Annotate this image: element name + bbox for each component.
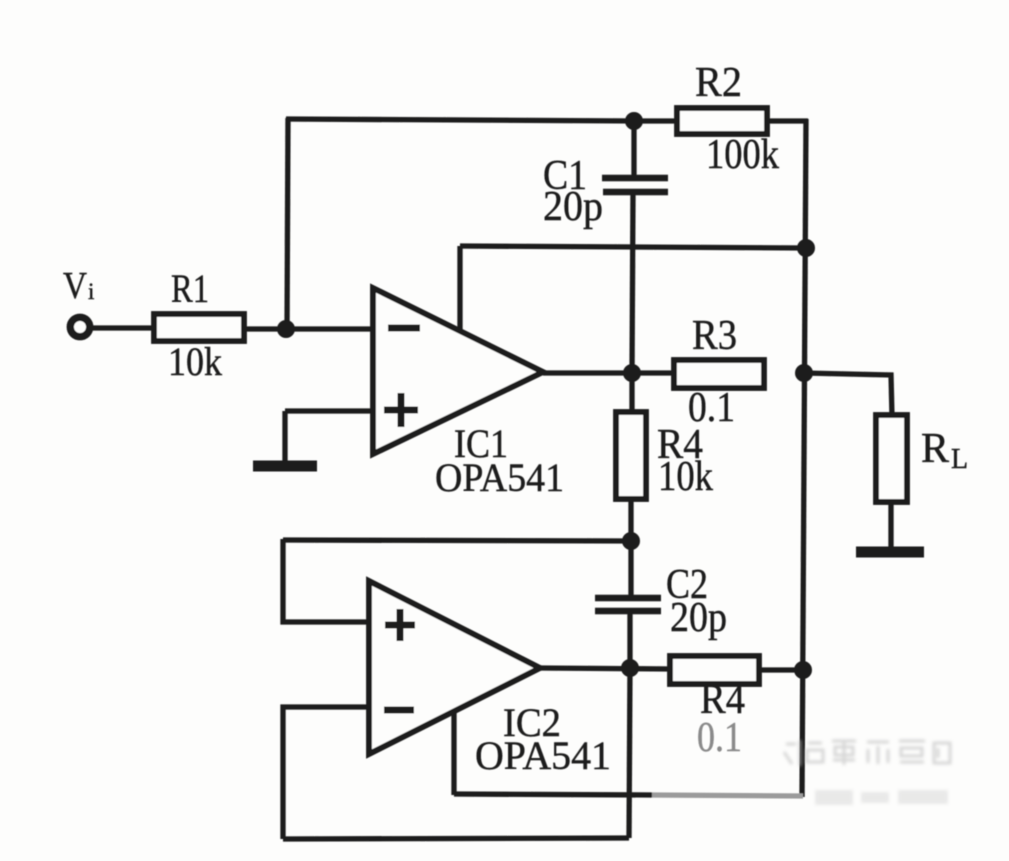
svg-text:R3: R3 bbox=[692, 313, 737, 359]
wire feedback vertical into IC1 bbox=[457, 246, 462, 331]
wire R4 0.1 right to rail bbox=[759, 667, 803, 672]
node C feedback/rail junction bbox=[797, 239, 815, 257]
op-amp U2 IC2 bbox=[369, 581, 540, 754]
svg-text:OPA541: OPA541 bbox=[435, 455, 564, 500]
svg-text:100k: 100k bbox=[706, 132, 779, 178]
resistor R3 bbox=[674, 360, 764, 388]
resistor RL bbox=[876, 415, 907, 502]
node D IC1 output junction bbox=[623, 364, 641, 382]
watermark bbox=[784, 740, 950, 766]
wire vertical from node A up bbox=[287, 118, 288, 329]
svg-text:R2: R2 bbox=[695, 60, 742, 106]
wire IC1 output bbox=[543, 370, 676, 375]
svg-text:OPA541: OPA541 bbox=[475, 733, 611, 778]
wire R2 right to rail bbox=[766, 118, 808, 123]
wire feedback horizontal to rail bbox=[460, 246, 805, 248]
svg-text:10k: 10k bbox=[658, 454, 713, 500]
wire input Vi to R1 bbox=[92, 325, 156, 330]
wire R3 right to RL bbox=[804, 373, 892, 416]
node H rail junction bbox=[794, 661, 812, 679]
wire IC2 feedback horizontal to rail bbox=[454, 794, 652, 795]
node B junction R2/C1 bbox=[625, 112, 643, 130]
svg-text:0.1: 0.1 bbox=[697, 715, 742, 761]
node G IC2 output junction bbox=[621, 659, 639, 677]
capacitor C1 bbox=[631, 121, 636, 176]
svg-text:V: V bbox=[63, 265, 87, 307]
svg-text:10k: 10k bbox=[168, 339, 222, 384]
input terminal Vi bbox=[70, 317, 89, 336]
svg-text:L: L bbox=[951, 444, 968, 475]
wire top horizontal to node B bbox=[286, 119, 636, 121]
wire node F to left bracket bbox=[283, 540, 631, 541]
resistor R2 bbox=[677, 108, 767, 134]
node F R4 bottom junction bbox=[622, 532, 640, 550]
wire lower-left bracket to IC2 inverting input bbox=[283, 707, 369, 839]
svg-text:R1: R1 bbox=[171, 266, 209, 311]
wire left bracket to IC2 non-inverting input bbox=[283, 539, 369, 622]
ground IC1 bbox=[282, 411, 287, 462]
op-amp U1 IC1 bbox=[373, 288, 543, 454]
wire IC1 non-inverting input bbox=[285, 408, 373, 413]
ground RL bbox=[856, 547, 924, 558]
resistor R4 10k vertical bbox=[629, 373, 634, 412]
wire IC2 output bbox=[540, 668, 671, 669]
wire bottom horizontal bbox=[283, 838, 629, 839]
resistor R4 0.1 bbox=[670, 656, 759, 684]
svg-text:20p: 20p bbox=[543, 184, 603, 230]
svg-text:20p: 20p bbox=[670, 595, 727, 641]
node E R3 right junction bbox=[795, 364, 813, 382]
svg-text:R: R bbox=[921, 426, 949, 472]
wire IC2 output down bbox=[629, 668, 630, 838]
svg-text:i: i bbox=[88, 279, 94, 304]
wire node B to R2 bbox=[634, 118, 678, 123]
wire RL to ground bbox=[888, 502, 893, 551]
resistor R1 bbox=[154, 314, 244, 341]
capacitor C2 bbox=[628, 541, 633, 596]
wire C1 bottom to node D bbox=[632, 194, 633, 373]
wire IC2 feedback vertical bbox=[451, 711, 456, 795]
node A junction R1/feedback bbox=[277, 320, 295, 338]
wire right vertical rail bbox=[802, 119, 806, 797]
wire R1 to IC1 inverting input bbox=[244, 326, 373, 331]
